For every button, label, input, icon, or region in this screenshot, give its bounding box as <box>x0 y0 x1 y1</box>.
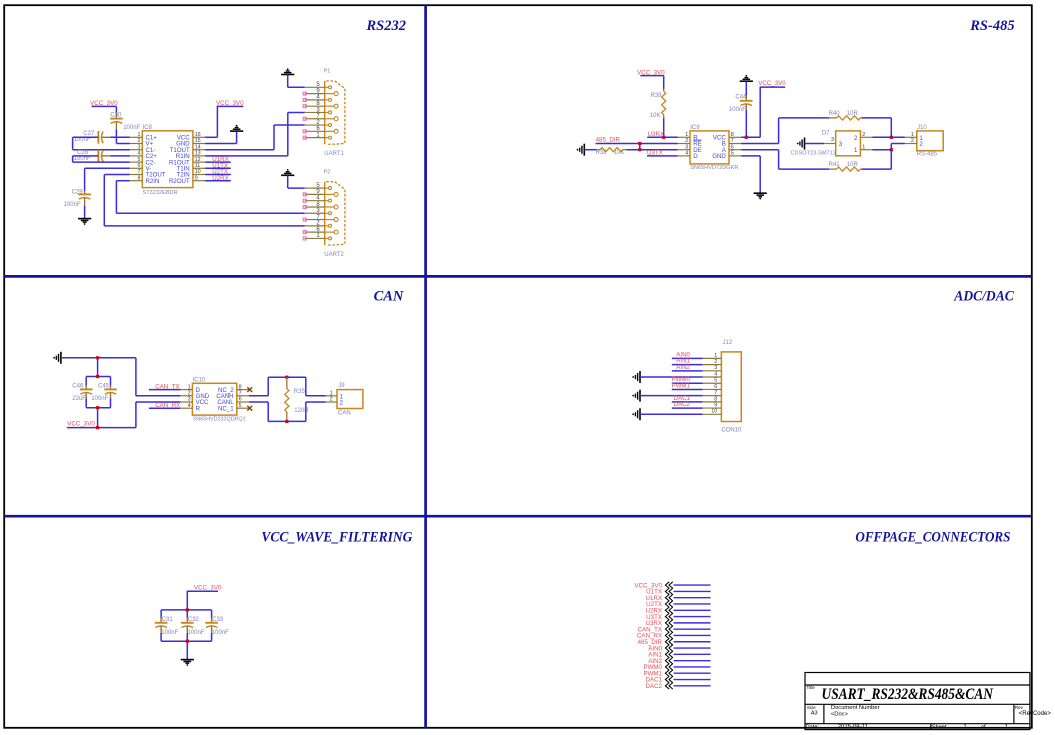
svg-text:D: D <box>693 153 698 160</box>
wire C45 top stub <box>110 377 112 386</box>
svg-text:8: 8 <box>714 396 717 402</box>
junction C44/VCC <box>745 136 748 139</box>
wire DAC2 to J12 <box>672 407 703 409</box>
capacitor C45 100nF <box>110 385 112 389</box>
wire A to R41 <box>779 168 830 170</box>
no-connect X at NC_2 pin8 <box>247 387 252 392</box>
svg-text:2: 2 <box>188 391 191 397</box>
svg-text:OFFPAGE_CONNECTORS: OFFPAGE_CONNECTORS <box>855 529 1010 545</box>
svg-text:Size: Size <box>807 705 816 710</box>
svg-text:22uF: 22uF <box>72 396 86 402</box>
wire GND down <box>759 156 761 193</box>
wire R41 up to D7 <box>890 150 892 169</box>
svg-text:6: 6 <box>731 144 734 150</box>
svg-text:9: 9 <box>714 402 717 408</box>
svg-text:Sheet: Sheet <box>932 725 947 731</box>
svg-text:2: 2 <box>330 397 333 403</box>
svg-text:R39: R39 <box>650 93 662 99</box>
section divider horizontal lower <box>4 515 1032 518</box>
resistor R40 10R <box>837 116 861 120</box>
wire VCC_3V0 down to C30 <box>115 106 117 113</box>
wire B to R40 <box>779 117 830 119</box>
svg-text:120R: 120R <box>294 408 309 414</box>
wire R40 right <box>862 117 892 119</box>
ground at R38 <box>583 144 585 156</box>
ground at P2 pin5 <box>281 172 294 176</box>
wire V- down to C29 <box>84 168 86 191</box>
svg-text:PWM1: PWM1 <box>671 382 690 389</box>
svg-text:D7: D7 <box>822 130 830 136</box>
svg-text:C32: C32 <box>188 617 200 623</box>
svg-text:1: 1 <box>714 353 717 359</box>
wire C32 bottom stub <box>186 633 188 641</box>
junction R39/U3RX <box>662 136 665 139</box>
resistor R38 10K <box>600 148 623 152</box>
wire R40 down to J10 pin1 <box>890 118 892 137</box>
svg-text:P1: P1 <box>324 69 331 75</box>
svg-text:485_DIR: 485_DIR <box>596 137 621 144</box>
svg-text:2: 2 <box>911 138 914 144</box>
wire ground rail <box>61 357 136 359</box>
wire R2OUT stub <box>205 180 231 182</box>
wire D7 pin2 to J10 pin1 <box>872 136 905 138</box>
svg-text:100nF: 100nF <box>161 630 178 636</box>
svg-text:J12: J12 <box>723 340 733 346</box>
wire T1OUT up <box>273 125 275 150</box>
ground below IC9 <box>754 193 767 197</box>
wire C28 jog down <box>72 156 74 162</box>
IC9 body <box>690 131 729 164</box>
junction filter top <box>186 608 189 611</box>
svg-text:R38: R38 <box>596 150 608 156</box>
svg-text:AIN2: AIN2 <box>676 364 690 371</box>
section divider horizontal upper <box>4 275 1032 278</box>
wire bracket right upper <box>305 377 307 396</box>
wire R38 to DE pin3 <box>627 149 678 151</box>
svg-text:<Doc>: <Doc> <box>831 711 849 717</box>
svg-text:5: 5 <box>138 157 141 163</box>
junction ground rail <box>96 356 99 359</box>
junction 485_DIR upper <box>638 142 641 145</box>
wire CANH right <box>249 395 268 397</box>
svg-text:RS232: RS232 <box>366 18 407 34</box>
ground at P1 pin5 <box>281 71 294 75</box>
no-connect X at NC_1 pin5 <box>247 406 252 411</box>
svg-text:J9: J9 <box>338 383 345 389</box>
junction VCC rail <box>96 426 99 429</box>
wire C46 top stub <box>85 377 87 386</box>
wire D7 pin1 right <box>872 149 891 151</box>
wire C29 to ground <box>84 206 86 219</box>
resistor R35 120R <box>285 389 289 412</box>
wire B pin7 right <box>741 143 778 145</box>
svg-text:2: 2 <box>685 138 688 144</box>
svg-text:C30: C30 <box>110 112 122 118</box>
wire cap branch bottom <box>97 408 99 428</box>
svg-text:1: 1 <box>685 132 688 138</box>
wire ground to P1 pin5 vertical <box>287 75 289 88</box>
svg-text:ADC/DAC: ADC/DAC <box>953 289 1014 305</box>
svg-text:8: 8 <box>138 175 141 181</box>
wire R35 bracket top <box>268 376 306 378</box>
wire T1IN stub <box>205 167 231 169</box>
wire bracket right lower <box>305 402 307 421</box>
svg-text:of: of <box>981 725 986 731</box>
junction bracket top <box>96 375 99 378</box>
svg-text:C46: C46 <box>72 384 84 390</box>
wire R2IN to P2 pin3 <box>116 212 304 214</box>
wire R1IN up <box>287 113 289 156</box>
wire C33 bottom stub <box>211 633 213 641</box>
ground above C44 <box>740 78 753 82</box>
wire ground to C44 <box>745 81 747 95</box>
ground at J12 pin 4 <box>639 371 641 383</box>
junction J10 pin1 <box>890 136 893 139</box>
svg-text:2025-08-11: 2025-08-11 <box>838 725 869 731</box>
pin 2 of J12 <box>703 364 722 366</box>
svg-text:14: 14 <box>195 144 201 150</box>
svg-text:5: 5 <box>731 151 734 157</box>
svg-text:Rev: Rev <box>1015 705 1024 710</box>
wire C45 bottom stub <box>110 398 112 407</box>
svg-text:7: 7 <box>714 390 717 396</box>
svg-text:12: 12 <box>195 157 201 163</box>
wire U3RX to pin1 <box>647 136 678 138</box>
ground at J12 pin 7 <box>639 390 641 402</box>
wire ground to J12 pin 7 <box>640 395 703 397</box>
svg-text:10: 10 <box>711 409 717 415</box>
svg-text:10K: 10K <box>650 113 661 119</box>
svg-text:R: R <box>196 405 201 412</box>
wire R1IN to P1 pin3 <box>288 112 305 114</box>
wire 485_DIR to RE pin2 <box>596 143 678 145</box>
wire RE-DE jog <box>639 144 641 150</box>
wire DAC1 to J12 <box>672 401 703 403</box>
svg-text:U2RX: U2RX <box>212 175 229 182</box>
wire C31 top stub <box>160 610 162 618</box>
wire ground to P2 pin5 vertical <box>287 175 289 188</box>
wire to VCC pin3 <box>136 401 181 403</box>
wire C32 top stub <box>186 610 188 618</box>
svg-text:R2IN: R2IN <box>146 178 160 185</box>
wire ground to P1 pin5 <box>288 86 305 88</box>
svg-text:C31: C31 <box>162 617 174 623</box>
wire ground to P2 pin5 <box>288 187 305 189</box>
svg-text:J10: J10 <box>917 125 927 131</box>
connector J9 CAN <box>337 390 363 409</box>
pin 6 of J12 <box>703 388 722 390</box>
pin 9 of J12 <box>703 407 722 409</box>
svg-text:15: 15 <box>195 138 201 144</box>
svg-text:100nF: 100nF <box>91 396 108 402</box>
wire T2OUT left <box>104 174 130 176</box>
svg-text:R40: R40 <box>829 111 841 117</box>
svg-text:1: 1 <box>911 132 914 138</box>
wire C27 jog down <box>72 137 74 149</box>
svg-text:2: 2 <box>862 132 865 138</box>
wire to VCC pin16 <box>205 136 217 138</box>
svg-text:3: 3 <box>831 137 834 143</box>
wire C27 right to C1+ pin1 <box>110 136 130 138</box>
connector J12 CON10 <box>721 352 741 422</box>
wire AIN1 to J12 <box>672 364 703 366</box>
svg-text:SN65HVD232QDRQ1: SN65HVD232QDRQ1 <box>193 417 246 423</box>
wire to J9 pin1 <box>306 395 326 397</box>
capacitor C32 100nF <box>186 617 188 622</box>
svg-text:100nF: 100nF <box>64 202 81 208</box>
svg-text:3: 3 <box>188 397 191 403</box>
wire C30 to V+ pin2 <box>116 143 129 145</box>
svg-text:2: 2 <box>138 138 141 144</box>
ground below filter <box>181 660 194 664</box>
junction bracket bottom <box>96 406 99 409</box>
svg-text:3: 3 <box>685 144 688 150</box>
wire cap bracket bottom <box>86 407 110 409</box>
svg-text:GND: GND <box>712 153 726 160</box>
svg-text:5: 5 <box>239 403 242 409</box>
svg-text:4: 4 <box>138 151 141 157</box>
svg-text:C29: C29 <box>72 190 84 196</box>
wire cap bracket top <box>86 376 110 378</box>
svg-text:4: 4 <box>685 151 688 157</box>
wire PWM1 to J12 <box>672 388 703 390</box>
wire C28 right to C2+ pin4 <box>110 155 130 157</box>
wire CANH up <box>267 377 269 396</box>
capacitor C28 100nF <box>97 150 99 163</box>
capacitor C31 100nF <box>160 617 162 622</box>
pin 4 of J12 <box>703 376 722 378</box>
wire rail down <box>135 358 137 396</box>
ground at CAN filter <box>60 352 62 364</box>
title block frame <box>805 673 1030 730</box>
wire to C2- pin5 <box>73 161 130 163</box>
wire VCC rail up <box>135 402 137 428</box>
wire VCC down <box>186 591 188 610</box>
wire T1OUT right <box>205 149 274 151</box>
capacitor C29 100nF <box>84 191 86 195</box>
junction filter bottom <box>186 640 189 643</box>
svg-text:IC9: IC9 <box>690 125 700 131</box>
pin 8 of J12 <box>703 401 722 403</box>
svg-text:1: 1 <box>862 144 865 150</box>
svg-text:ST3232EBDR: ST3232EBDR <box>143 190 178 196</box>
svg-text:11: 11 <box>195 163 201 169</box>
svg-text:7: 7 <box>138 169 141 175</box>
wire CAN_RX to R pin4 <box>149 407 181 409</box>
pin 5 of J12 <box>703 382 722 384</box>
connector J10 RS-485 <box>917 131 943 151</box>
wire VCC_3V0 down to pin16 <box>216 106 218 137</box>
wire ground to J12 pin 4 <box>640 376 703 378</box>
svg-text:VCC_3V0: VCC_3V0 <box>758 80 786 87</box>
pin 10 of J12 <box>703 413 722 415</box>
svg-text:9: 9 <box>195 175 198 181</box>
svg-text:8: 8 <box>239 384 242 390</box>
wire filter bracket bottom <box>161 640 212 642</box>
svg-text:7: 7 <box>731 138 734 144</box>
svg-text:IC10: IC10 <box>193 378 206 384</box>
svg-text:CAN: CAN <box>338 410 351 416</box>
wire GND pin5 right <box>741 155 760 157</box>
wire T2OUT to P2 pin2 <box>104 225 304 227</box>
wire ground to D7 pin3 <box>805 143 825 145</box>
svg-text:UART1: UART1 <box>324 151 344 157</box>
svg-text:CDSOT23-SM712: CDSOT23-SM712 <box>791 151 836 157</box>
svg-text:6: 6 <box>239 397 242 403</box>
svg-text:16: 16 <box>195 132 201 138</box>
wire C30 to V+ vertical <box>115 130 117 144</box>
ground at IC8 GND <box>230 128 243 132</box>
wire C28 left plate <box>73 155 99 157</box>
svg-text:Title: Title <box>807 685 816 690</box>
wire to J10 pin2 <box>891 143 905 145</box>
wire R2IN down <box>115 181 117 214</box>
junction 485_DIR lower <box>638 148 641 151</box>
wire filter bracket top <box>161 609 212 611</box>
pin 1 of J12 <box>703 357 722 359</box>
svg-text:R2OUT: R2OUT <box>169 178 190 185</box>
IC8 body <box>142 131 193 188</box>
ground at D7 pin3 <box>804 138 806 150</box>
svg-text:1: 1 <box>188 384 191 390</box>
wire AIN0 to J12 <box>672 357 703 359</box>
capacitor C30 100nF <box>115 113 117 119</box>
svg-text:3: 3 <box>839 141 843 148</box>
wire J10 pin2 jog <box>890 144 892 150</box>
IC10 body <box>192 383 236 415</box>
wire ground to R38 <box>584 149 597 151</box>
svg-text:USART_RS232&RS485&CAN: USART_RS232&RS485&CAN <box>822 686 994 703</box>
svg-text:5: 5 <box>714 378 717 384</box>
svg-text:SN65HVD72DGKR: SN65HVD72DGKR <box>690 165 738 171</box>
svg-text:DAC2: DAC2 <box>645 683 662 690</box>
wire CAN_TX to D pin1 <box>149 389 181 391</box>
svg-text:6: 6 <box>138 163 141 169</box>
wire R39 to U3RX <box>663 118 665 137</box>
svg-text:4: 4 <box>714 371 717 377</box>
svg-text:VCC_WAVE_FILTERING: VCC_WAVE_FILTERING <box>261 529 412 545</box>
wire B up <box>778 118 780 144</box>
pin 7 of J12 <box>703 395 722 397</box>
svg-text:IC8: IC8 <box>143 125 153 131</box>
wire R2IN left <box>116 180 129 182</box>
svg-text:10R: 10R <box>847 162 859 168</box>
svg-text:VCC_3V0: VCC_3V0 <box>67 421 95 428</box>
svg-text:3: 3 <box>138 144 141 150</box>
svg-text:100nF: 100nF <box>123 125 140 131</box>
wire C31 bottom stub <box>160 633 162 641</box>
wire VCC_3V0 down <box>759 87 761 137</box>
capacitor C33 100nF <box>211 617 213 622</box>
svg-text:C45: C45 <box>98 384 110 390</box>
svg-text:UART2: UART2 <box>324 252 344 258</box>
svg-text:4: 4 <box>188 403 191 409</box>
wire R41 right <box>862 168 892 170</box>
wire to C1- pin3 <box>73 149 130 151</box>
wire T1OUT to P1 pin2 <box>274 124 305 126</box>
svg-text:3: 3 <box>714 365 717 371</box>
TVS diode D7 CDSOT23-SM712 <box>836 131 861 156</box>
svg-text:RS-485: RS-485 <box>917 151 938 157</box>
wire C44 down to VCC pin8 <box>745 110 747 137</box>
svg-text:P2: P2 <box>324 169 331 175</box>
wire A down <box>778 150 780 169</box>
wire V- pin6 left <box>85 167 130 169</box>
wire AIN2 to J12 <box>672 370 703 372</box>
svg-text:7: 7 <box>239 391 242 397</box>
junction R35 top <box>285 376 288 379</box>
wire CANL right <box>249 401 268 403</box>
svg-text:10: 10 <box>195 169 201 175</box>
wire T2OUT down <box>103 175 105 226</box>
wire GND up <box>236 131 238 143</box>
wire GND pin15 <box>205 143 237 145</box>
wire R1OUT stub <box>205 161 231 163</box>
svg-text:100nF: 100nF <box>729 107 746 113</box>
svg-text:A3: A3 <box>811 711 818 717</box>
svg-text:R41: R41 <box>829 162 841 168</box>
junction R35 bottom <box>285 420 288 423</box>
svg-text:10R: 10R <box>847 111 859 117</box>
wire PWM0 to J12 <box>672 382 703 384</box>
svg-text:DAC2: DAC2 <box>673 401 690 408</box>
pin 3 of J12 <box>703 370 722 372</box>
svg-text:C44: C44 <box>735 94 747 100</box>
wire CANL down <box>267 402 269 421</box>
svg-text:CAN: CAN <box>374 289 404 305</box>
wire to filter ground <box>186 641 188 659</box>
wire VCC_3V0 down to R39 <box>663 76 665 89</box>
wire cap branch top <box>97 358 99 377</box>
wire to J9 pin2 <box>306 401 326 403</box>
svg-text:100nF: 100nF <box>212 630 229 636</box>
capacitor C44 100nF <box>745 95 747 101</box>
section divider vertical <box>424 5 427 728</box>
ground at J12 pin 10 <box>639 408 641 420</box>
capacitor C46 22uF <box>85 385 87 389</box>
wire ground to J12 pin 10 <box>640 413 703 415</box>
svg-text:100nF: 100nF <box>74 156 91 162</box>
svg-text:Date:: Date: <box>806 725 820 731</box>
svg-text:100nF: 100nF <box>188 630 205 636</box>
wire C27 left plate <box>73 136 99 138</box>
svg-text:2: 2 <box>714 359 717 365</box>
svg-text:6: 6 <box>714 384 717 390</box>
resistor R39 10K <box>662 91 666 114</box>
svg-text:1: 1 <box>330 390 333 396</box>
wire T2IN stub <box>205 174 231 176</box>
wire to GND pin2 <box>136 395 181 397</box>
svg-text:<RevCode>: <RevCode> <box>1019 711 1052 717</box>
svg-text:10K: 10K <box>614 150 625 156</box>
svg-text:NC_1: NC_1 <box>218 405 234 412</box>
wire C33 top stub <box>211 610 213 618</box>
capacitor C27 100nF <box>97 131 99 144</box>
svg-text:1: 1 <box>138 132 141 138</box>
svg-text:RS-485: RS-485 <box>969 18 1014 34</box>
svg-text:13: 13 <box>195 151 201 157</box>
wire A pin6 right <box>741 149 778 151</box>
wire to VCC pin8 <box>741 136 760 138</box>
svg-text:C33: C33 <box>212 617 224 623</box>
resistor R41 10R <box>837 167 861 171</box>
ground below C29 <box>78 219 91 223</box>
svg-text:R35: R35 <box>294 389 306 395</box>
svg-text:CON10: CON10 <box>721 428 742 434</box>
svg-text:8: 8 <box>731 132 734 138</box>
wire C46 bottom stub <box>85 398 87 407</box>
svg-text:Document Number: Document Number <box>831 705 880 711</box>
